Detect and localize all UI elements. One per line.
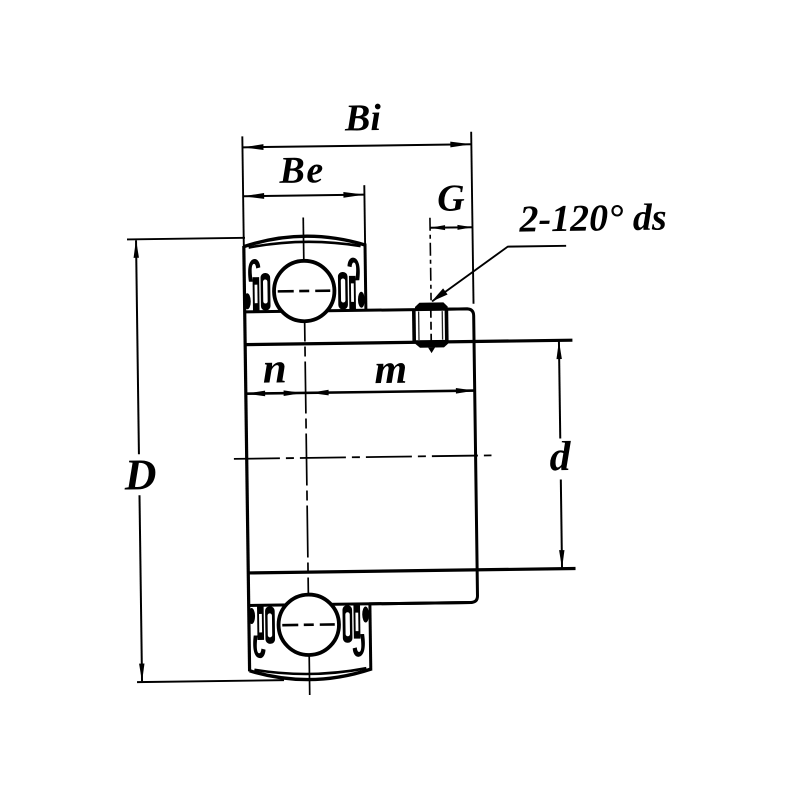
vertical center line through balls [303,218,310,695]
bore top line (extends right as extension line for d) [245,340,572,344]
svg-text:Bi: Bi [344,97,382,140]
svg-text:d: d [549,434,572,480]
dimension G [429,177,472,230]
dimension Be [243,149,366,247]
svg-text:G: G [437,177,466,219]
svg-text:Be: Be [278,149,325,192]
svg-text:D: D [123,450,156,499]
dimension Bi [242,96,474,307]
svg-text:n: n [263,345,288,392]
set screw [412,302,449,353]
inner ring right face with rounded corners [365,309,478,604]
set screw center line [430,218,431,300]
dimension d [548,341,573,569]
dimension n and m [245,343,475,397]
bore bottom line (extends right as extension line for d) [248,568,575,572]
svg-text:2-120° ds: 2-120° ds [518,197,667,241]
note 2-120° ds with leader [430,197,668,302]
left face of rings [244,246,250,671]
top bearing half [243,234,468,322]
bottom bearing half (mirrored) [248,592,473,680]
horizontal center axis [234,455,492,459]
dimension D [120,237,284,682]
svg-text:m: m [374,347,407,393]
